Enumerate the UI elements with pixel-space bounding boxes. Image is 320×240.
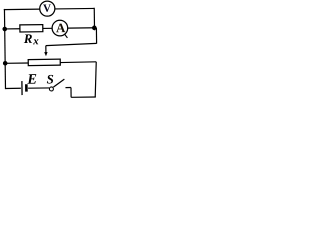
- wire battery to switch: [28, 87, 49, 89]
- wire right vertical lower: [95, 62, 97, 97]
- rheostat R2 box: [28, 59, 60, 65]
- wire row2 left: [5, 28, 20, 30]
- wire top-left to voltmeter: [4, 8, 40, 10]
- resistor Rx box: [20, 25, 43, 32]
- wire switch to jog: [65, 87, 70, 89]
- svg-text:V: V: [43, 3, 51, 15]
- node junction dot right row2: [92, 25, 97, 30]
- node junction dot left row3: [3, 61, 8, 66]
- node junction dot left row2: [2, 27, 7, 32]
- battery E long plate: [21, 81, 23, 95]
- rheostat slider arrow stem: [45, 46, 47, 53]
- wire bottom jog vertical: [70, 88, 72, 98]
- wire ammeter to right node: [68, 27, 97, 29]
- wire row3 right: [60, 61, 96, 64]
- wire bottom left: [5, 87, 20, 89]
- svg-text:A: A: [56, 20, 66, 35]
- wire Rx to ammeter: [43, 27, 52, 29]
- svg-text:S: S: [46, 71, 53, 86]
- wire voltmeter to top-right corner: [55, 7, 94, 10]
- voltmeter U1 circle: [40, 1, 55, 16]
- switch S pivot circle: [49, 87, 53, 91]
- svg-text:E: E: [26, 72, 37, 88]
- rheostat slider arrowhead: [44, 52, 47, 56]
- wire bottom right horizontal: [71, 96, 96, 98]
- switch S lever: [53, 79, 64, 87]
- wire slider lead horizontal: [46, 43, 97, 45]
- wire slider feed vertical: [95, 28, 97, 44]
- svg-text:x: x: [32, 35, 39, 47]
- wire right vertical upper: [93, 8, 95, 30]
- ammeter circle tail stroke: [64, 34, 67, 38]
- ammeter U2 circle: [52, 20, 68, 36]
- wire row3 left: [5, 62, 28, 64]
- wire left vertical: [4, 9, 5, 89]
- svg-text:R: R: [23, 31, 33, 46]
- battery E short thick plate: [25, 84, 28, 91]
